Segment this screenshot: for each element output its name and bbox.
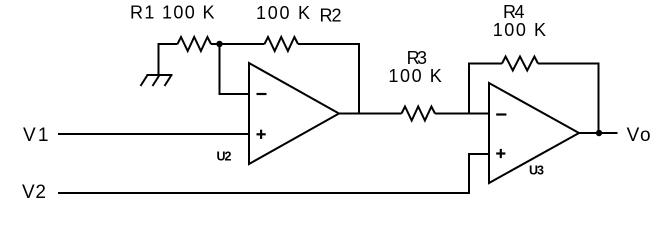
svg-text:100 K: 100 K [256,3,310,23]
U3 noninverting pin plus sign [496,149,505,158]
ground [141,75,173,86]
wire node A to R2 [220,43,265,45]
resistor R4 [502,57,538,71]
wire V1 to U2 noninverting input [58,133,249,135]
U3 inverting pin minus sign [496,113,506,115]
wire U2 output to R3 [339,113,402,115]
svg-text:U2: U2 [217,150,232,164]
op-amp U3 [489,83,579,183]
wire V2 to U3 noninverting input [58,154,489,193]
svg-text:100 K: 100 K [493,20,546,40]
wire R3 to U3 inverting input [435,113,489,115]
wire R4 to output node [538,64,599,134]
resistor R3 [402,107,436,121]
op-amp U2 [249,63,339,164]
junction node A [216,41,222,47]
svg-text:100 K: 100 K [388,66,441,86]
U2 inverting pin minus sign [257,93,267,95]
resistor R1 [178,37,212,51]
U2 noninverting pin plus sign [257,130,266,139]
svg-text:V2: V2 [22,182,46,203]
svg-text:R3: R3 [407,48,427,68]
resistor R2 [265,37,299,51]
wire R1 to node A [211,43,220,45]
svg-text:R2: R2 [320,6,342,26]
svg-text:R4: R4 [503,2,525,22]
wire ground to R1 [159,44,178,75]
wire node B to R4 [469,64,502,114]
wire U3 output to Vo [579,132,618,134]
wire R2 to U2 output [298,44,359,114]
svg-text:U3: U3 [529,164,544,178]
junction output node [596,130,602,136]
wire node A to U2 inverting input [220,44,250,94]
